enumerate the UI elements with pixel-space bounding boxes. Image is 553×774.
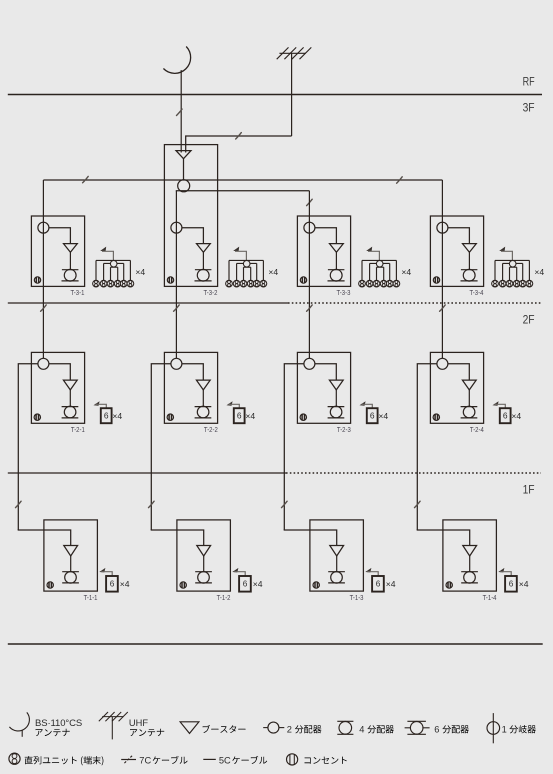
svg-text:6: 6 bbox=[110, 579, 115, 588]
wire amp to terminal T-2-4 bbox=[468, 390, 470, 407]
svg-text:1: 1 bbox=[502, 725, 507, 735]
amp triangle in T-1-1 bbox=[64, 546, 78, 557]
6-branch box 2F 2 bbox=[234, 408, 245, 423]
7C tick on riser to 1F stack 3 bbox=[282, 501, 288, 507]
legend 7C cable symbol bbox=[121, 759, 136, 761]
7C tick on stack3 drop bbox=[307, 199, 313, 205]
wire amp to terminal T-1-4 bbox=[469, 556, 471, 572]
svg-text:4: 4 bbox=[359, 725, 364, 735]
svg-text:6: 6 bbox=[503, 410, 508, 420]
arrow to 6-way splitter 1 bbox=[100, 247, 106, 252]
unit box T-1-1 bbox=[44, 520, 98, 591]
legend UHF antenna symbol bbox=[102, 716, 123, 718]
amp triangle in T-3-3 bbox=[330, 244, 344, 253]
terminal unit in T-3-1 bbox=[62, 269, 79, 271]
riser wire stack 2 3F to 2F bbox=[175, 191, 177, 359]
svg-text:T-1-4: T-1-4 bbox=[483, 595, 497, 602]
legend 2-way splitter symbol bbox=[263, 727, 268, 729]
wire amp to terminal T-3-1 bbox=[69, 252, 71, 269]
6-branch box 2F 3 bbox=[367, 408, 378, 423]
svg-text:T-2-1: T-2-1 bbox=[71, 427, 85, 434]
outlet symbol in T-3-1 bbox=[34, 277, 40, 283]
svg-text:6: 6 bbox=[243, 579, 248, 588]
svg-text:×4: ×4 bbox=[245, 412, 255, 421]
wire amp to terminal T-1-1 bbox=[70, 556, 72, 572]
UHF mast wire bbox=[291, 53, 293, 136]
terminal units row 1 bbox=[93, 280, 100, 287]
tap circle in T-2-1 bbox=[38, 358, 49, 369]
wire amp to terminal T-3-2 bbox=[202, 252, 204, 269]
svg-text:1F: 1F bbox=[523, 483, 535, 497]
terminal unit in T-3-4 bbox=[461, 269, 478, 271]
tap circle in T-2-4 bbox=[437, 358, 448, 369]
legend booster symbol bbox=[180, 722, 199, 734]
wire tap to booster T-3-2 bbox=[182, 228, 204, 244]
amp triangle in T-1-3 bbox=[330, 546, 344, 557]
svg-text:T-1-3: T-1-3 bbox=[350, 595, 364, 602]
terminal unit in T-1-3 bbox=[328, 571, 345, 573]
terminal unit in T-1-1 bbox=[62, 571, 79, 573]
booster U1 triangle bbox=[176, 151, 191, 159]
arrow to 6-box 1F 3 bbox=[365, 568, 371, 573]
svg-text:BS·110°CS: BS·110°CS bbox=[35, 718, 82, 729]
7C tick on 3F wire right bbox=[397, 177, 403, 183]
floor line 2F/1F dotted part bbox=[286, 472, 541, 474]
riser wire stack 1 3F to 2F bbox=[42, 180, 44, 358]
arrow to 6-way splitter 4 bbox=[499, 247, 505, 252]
legend terminal unit symbol bbox=[9, 753, 20, 764]
svg-text:T-3-3: T-3-3 bbox=[337, 290, 351, 297]
svg-text:6: 6 bbox=[434, 725, 439, 735]
amp triangle in T-2-4 bbox=[462, 380, 476, 390]
svg-text:×4: ×4 bbox=[112, 412, 122, 421]
6-way splitter 3 bbox=[362, 260, 396, 280]
wire tap left exit down to 1F stack 3 bbox=[284, 364, 304, 530]
6-way splitter 1 bbox=[96, 260, 130, 280]
svg-text:5C: 5C bbox=[219, 755, 231, 765]
unit box T-1-2 bbox=[177, 520, 231, 591]
wire amp to terminal T-2-3 bbox=[335, 390, 337, 407]
booster/unit box T-3-2 (tall) bbox=[164, 145, 217, 287]
arrow to 6-box 2F 4 bbox=[493, 401, 499, 406]
terminal units row 4 bbox=[492, 280, 499, 287]
amp triangle in T-2-3 bbox=[329, 380, 343, 390]
amp triangle in T-3-2 bbox=[197, 244, 211, 253]
arrow to 6-box 2F 1 bbox=[94, 401, 100, 406]
tap circle in T-3-1 bbox=[38, 222, 49, 233]
bottom ground line bbox=[8, 643, 543, 645]
outlet symbol in T-2-3 bbox=[300, 414, 306, 420]
6-branch box 1F 3 bbox=[372, 576, 384, 592]
7C tick on riser stack 1 below 2F line bbox=[41, 305, 47, 311]
7C tick on riser to 1F stack 4 bbox=[415, 501, 421, 507]
floor line 2F/1F solid part bbox=[8, 472, 286, 474]
svg-text:×4: ×4 bbox=[378, 412, 388, 421]
svg-text:T-2-2: T-2-2 bbox=[204, 427, 218, 434]
arrow to 6-box 1F 2 bbox=[232, 568, 238, 573]
svg-text:2F: 2F bbox=[523, 313, 535, 327]
outlet symbol in T-3-3 bbox=[300, 277, 306, 283]
7C tick on 3F wire left bbox=[83, 176, 89, 182]
6-branch box 2F 4 bbox=[500, 408, 511, 423]
amp triangle in T-1-2 bbox=[197, 546, 211, 557]
tap circle in T-2-2 bbox=[171, 358, 182, 369]
floor line 3F/2F solid part bbox=[8, 302, 288, 304]
riser wire stack 4 3F to 2F bbox=[441, 180, 443, 358]
UHF downlead wire to booster bbox=[186, 136, 292, 153]
wire tap to amp T-2-2 bbox=[182, 364, 203, 380]
unit box T-3-3 bbox=[297, 216, 350, 286]
svg-text:×4: ×4 bbox=[519, 580, 529, 589]
wire booster to splitter bbox=[183, 159, 185, 180]
svg-text:×4: ×4 bbox=[268, 268, 278, 277]
legend text コンセント bbox=[305, 757, 347, 764]
terminal unit in T-1-4 bbox=[461, 571, 478, 573]
svg-text:6: 6 bbox=[237, 410, 242, 420]
7C tick on BS feed bbox=[177, 109, 183, 115]
terminal unit in T-2-1 bbox=[62, 406, 79, 408]
7C tick on riser to 1F stack 2 bbox=[149, 501, 155, 507]
outlet symbol in T-2-1 bbox=[34, 414, 40, 420]
7C tick on riser to 1F stack 1 bbox=[16, 501, 22, 507]
wire amp to terminal T-3-4 bbox=[468, 252, 470, 269]
wire amp to terminal T-1-3 bbox=[336, 556, 338, 572]
unit box T-2-4 bbox=[430, 352, 483, 423]
amp triangle in T-2-1 bbox=[63, 380, 77, 390]
svg-text:×4: ×4 bbox=[135, 268, 145, 277]
svg-text:T-2-4: T-2-4 bbox=[470, 427, 484, 434]
BS antenna feed wire bbox=[180, 70, 182, 152]
wire tap to amp T-2-3 bbox=[315, 364, 336, 380]
svg-text:×4: ×4 bbox=[511, 412, 521, 421]
legend outlet symbol bbox=[287, 754, 298, 765]
arrow to 6-box 2F 2 bbox=[227, 401, 233, 406]
6-branch box 1F 2 bbox=[239, 576, 251, 592]
outlet symbol in T-3-2 bbox=[167, 277, 173, 283]
7C tick on UHF downlead bbox=[236, 133, 242, 139]
terminal unit in T-3-2 bbox=[195, 269, 212, 271]
outlet symbol in T-1-3 bbox=[313, 582, 319, 588]
unit box T-3-1 bbox=[31, 216, 84, 286]
svg-text:T-3-1: T-3-1 bbox=[71, 290, 85, 297]
svg-text:T-3-4: T-3-4 bbox=[470, 290, 484, 297]
legend text 直列ユニット(端末) bbox=[25, 756, 104, 765]
amp triangle in T-3-1 bbox=[64, 244, 78, 253]
entry wire T-1-4 bbox=[417, 529, 469, 545]
terminal units row 2 bbox=[226, 280, 233, 287]
terminal unit in T-2-2 bbox=[195, 406, 212, 408]
wire tap to booster T-3-3 bbox=[315, 228, 337, 244]
arrow to 6-way splitter 2 bbox=[233, 247, 239, 252]
tap circle in T-3-2 bbox=[171, 222, 182, 233]
arrow to 6-box 1F 4 bbox=[498, 568, 504, 573]
7C tick on riser stack 4 below 2F line bbox=[440, 305, 446, 311]
entry wire T-1-2 bbox=[151, 529, 203, 545]
svg-text:×4: ×4 bbox=[534, 268, 544, 277]
svg-text:T-1-1: T-1-1 bbox=[84, 595, 98, 602]
outlet symbol in T-1-4 bbox=[446, 582, 452, 588]
2-way splitter circle bbox=[178, 180, 190, 192]
outlet symbol in T-1-2 bbox=[180, 582, 186, 588]
wire amp to terminal T-3-3 bbox=[335, 252, 337, 269]
7C tick on riser stack 2 below 2F line bbox=[174, 305, 180, 311]
terminal unit in T-2-4 bbox=[461, 406, 478, 408]
svg-text:2: 2 bbox=[287, 725, 292, 735]
legend 4-way splitter symbol bbox=[337, 720, 353, 722]
svg-text:T-2-3: T-2-3 bbox=[337, 427, 351, 434]
BS/CS antenna dish bbox=[163, 47, 190, 74]
terminal unit in T-3-3 bbox=[328, 269, 345, 271]
riser wire stack 3 3F to 2F bbox=[308, 191, 310, 359]
svg-text:T-1-2: T-1-2 bbox=[217, 595, 231, 602]
wire tap left exit down to 1F stack 4 bbox=[417, 364, 437, 530]
wire splitter out to stacks 2-3 bbox=[176, 190, 309, 193]
floor line 3F/2F dotted part bbox=[288, 302, 541, 304]
outlet symbol in T-2-4 bbox=[433, 414, 439, 420]
legend BS/CS antenna symbol bbox=[9, 712, 29, 731]
outlet symbol in T-2-2 bbox=[167, 414, 173, 420]
6-branch box 1F 4 bbox=[505, 576, 517, 592]
wire amp to terminal T-2-1 bbox=[69, 390, 71, 407]
legend 5C cable symbol bbox=[203, 758, 216, 760]
arrow to 6-way splitter 3 bbox=[366, 247, 372, 252]
wire tap to amp T-2-4 bbox=[448, 364, 469, 380]
wire amp to terminal T-2-2 bbox=[202, 390, 204, 407]
svg-text:6: 6 bbox=[370, 410, 375, 420]
amp triangle in T-3-4 bbox=[463, 244, 477, 253]
svg-text:7C: 7C bbox=[139, 755, 151, 765]
floor line RF/3F bbox=[8, 94, 542, 96]
unit box T-2-1 bbox=[31, 352, 84, 423]
unit box T-1-3 bbox=[310, 520, 364, 591]
UHF antenna bbox=[277, 47, 312, 59]
svg-text:UHF: UHF bbox=[129, 718, 148, 728]
wire tap left exit down to 1F stack 1 bbox=[18, 364, 38, 530]
svg-text:3F: 3F bbox=[523, 100, 535, 114]
svg-text:6: 6 bbox=[509, 579, 514, 588]
amp triangle in T-2-2 bbox=[196, 380, 210, 390]
amp triangle in T-1-4 bbox=[463, 546, 477, 557]
terminal units row 3 bbox=[359, 280, 366, 287]
svg-text:×4: ×4 bbox=[120, 580, 130, 589]
unit box T-3-4 bbox=[430, 216, 483, 286]
outlet symbol in T-3-4 bbox=[433, 277, 439, 283]
unit box T-1-4 bbox=[443, 520, 497, 591]
unit box T-2-3 bbox=[297, 352, 350, 423]
7C tick on riser stack 3 below 2F line bbox=[307, 305, 313, 311]
svg-text:T-3-2: T-3-2 bbox=[204, 290, 218, 297]
svg-text:RF: RF bbox=[523, 74, 535, 88]
wire tap to amp T-2-1 bbox=[49, 364, 70, 380]
wire tap to booster T-3-4 bbox=[448, 228, 470, 244]
unit box T-2-2 bbox=[164, 352, 217, 423]
svg-text:6: 6 bbox=[376, 579, 381, 588]
svg-text:×4: ×4 bbox=[253, 580, 263, 589]
wire amp to terminal T-1-2 bbox=[203, 556, 205, 572]
entry wire T-1-1 bbox=[18, 529, 70, 545]
6-way splitter 4 bbox=[495, 260, 529, 280]
tap circle in T-3-3 bbox=[304, 222, 315, 233]
6-branch box 1F 1 bbox=[106, 576, 118, 592]
arrow to 6-box 1F 1 bbox=[99, 568, 105, 573]
terminal unit in T-2-3 bbox=[328, 406, 345, 408]
legend 1-branch tap symbol bbox=[487, 722, 500, 735]
6-way splitter 2 bbox=[229, 260, 263, 280]
svg-text:6: 6 bbox=[104, 410, 109, 420]
outlet symbol in T-1-1 bbox=[47, 582, 53, 588]
6-branch box 2F 1 bbox=[101, 408, 112, 423]
wire tap left exit down to 1F stack 2 bbox=[151, 364, 171, 530]
legend text booster bbox=[203, 725, 246, 733]
entry wire T-1-3 bbox=[284, 529, 336, 545]
wire tap to booster T-3-1 bbox=[49, 228, 71, 244]
3F distribution wire y=180 bbox=[43, 179, 442, 181]
arrow to 6-box 2F 3 bbox=[360, 401, 366, 406]
svg-text:×4: ×4 bbox=[386, 580, 396, 589]
tap circle in T-2-3 bbox=[304, 358, 315, 369]
legend 6-way splitter symbol bbox=[407, 720, 426, 722]
svg-text:×4: ×4 bbox=[401, 268, 411, 277]
terminal unit in T-1-2 bbox=[195, 571, 212, 573]
tap circle in T-3-4 bbox=[437, 222, 448, 233]
